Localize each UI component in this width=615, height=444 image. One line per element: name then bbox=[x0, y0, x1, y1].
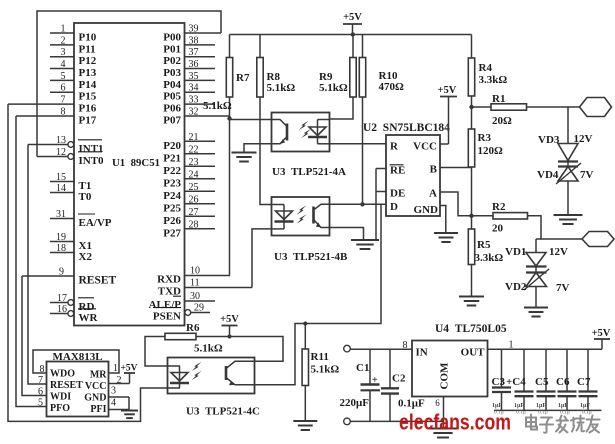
svg-text:24: 24 bbox=[189, 169, 199, 180]
svg-text:12: 12 bbox=[56, 147, 66, 158]
svg-text:A: A bbox=[429, 188, 437, 200]
svg-text:INT1: INT1 bbox=[79, 143, 104, 155]
U2 pin RE bbox=[376, 165, 405, 177]
svg-text:11: 11 bbox=[190, 278, 200, 289]
svg-text:5.1kΩ: 5.1kΩ bbox=[319, 82, 348, 94]
svg-text:P16: P16 bbox=[79, 103, 97, 115]
svg-text:R7: R7 bbox=[236, 72, 250, 84]
ground for MAX813L bbox=[121, 411, 138, 419]
resistor R3 bbox=[468, 107, 503, 167]
svg-text:C1: C1 bbox=[356, 362, 369, 374]
U1 pin 34 P05 bbox=[163, 83, 215, 103]
svg-text:P23: P23 bbox=[163, 177, 181, 189]
U1 pin 31 EA/VP bbox=[50, 209, 112, 229]
svg-text:7V: 7V bbox=[580, 169, 594, 181]
svg-text:VCC: VCC bbox=[413, 141, 437, 153]
U1 pin 10 RXD bbox=[157, 266, 230, 286]
svg-text:220μF: 220μF bbox=[340, 397, 370, 409]
MAX813L pin 4 PFI bbox=[90, 398, 129, 416]
svg-text:P10: P10 bbox=[79, 32, 97, 44]
svg-text:WDO: WDO bbox=[50, 369, 75, 380]
wire MAX GND PFI to ground bbox=[128, 397, 130, 411]
svg-text:WR: WR bbox=[79, 312, 99, 324]
svg-text:1μF: 1μF bbox=[536, 403, 546, 409]
svg-text:29: 29 bbox=[194, 303, 204, 314]
wire 4A LED cathode to U2 R bbox=[330, 143, 387, 145]
capacitor C1 220uF bbox=[340, 349, 381, 421]
svg-text:R1: R1 bbox=[492, 93, 505, 105]
svg-text:0.1μF: 0.1μF bbox=[398, 398, 425, 410]
wire TXD to 4B LED cathode bbox=[252, 229, 272, 288]
junction node A/R2/R5 bbox=[469, 214, 473, 218]
U1 pin 38 P01 bbox=[163, 35, 215, 55]
svg-text:+C4: +C4 bbox=[506, 376, 526, 388]
svg-text:19: 19 bbox=[56, 232, 66, 243]
svg-text:39: 39 bbox=[189, 24, 199, 35]
svg-text:5.1kΩ: 5.1kΩ bbox=[194, 343, 223, 355]
svg-text:28: 28 bbox=[189, 219, 199, 230]
svg-text:3: 3 bbox=[61, 47, 66, 58]
junction R11 top bbox=[303, 322, 307, 326]
junction +5V R6 bbox=[228, 335, 232, 339]
wire input top rail to U4 IN bbox=[349, 348, 351, 351]
svg-text:P02: P02 bbox=[163, 55, 181, 67]
svg-text:P25: P25 bbox=[163, 202, 181, 214]
svg-text:RE: RE bbox=[390, 165, 405, 177]
U1 pin 18 X2 bbox=[50, 243, 92, 263]
U1 pin 26 P25 bbox=[163, 194, 215, 214]
svg-text:P14: P14 bbox=[79, 79, 97, 91]
wire net INT1 to MAX813L RESET pin7 bbox=[28, 145, 47, 385]
svg-text:P20: P20 bbox=[163, 140, 181, 152]
svg-text:33: 33 bbox=[189, 95, 199, 106]
U1 pin 19 X1 bbox=[50, 232, 92, 252]
svg-text:VD2: VD2 bbox=[505, 281, 527, 293]
junction +5V rail bbox=[351, 32, 355, 36]
svg-text:PFI: PFI bbox=[90, 404, 106, 415]
svg-text:10: 10 bbox=[190, 266, 200, 277]
svg-text:15: 15 bbox=[56, 172, 66, 183]
svg-text:P07: P07 bbox=[163, 115, 181, 127]
ground under VD4 bbox=[554, 215, 583, 224]
svg-text:U4 TL750L05: U4 TL750L05 bbox=[435, 323, 507, 335]
svg-text:P21: P21 bbox=[163, 152, 181, 164]
U1 pin 7 P16 bbox=[8, 95, 97, 115]
svg-text:IN: IN bbox=[416, 347, 428, 359]
svg-text:P03: P03 bbox=[163, 67, 181, 79]
U1 pin 28 P27 bbox=[163, 219, 215, 239]
U1 pin 17 RD bbox=[50, 293, 94, 313]
junction P07 R7 node bbox=[227, 116, 231, 120]
wire U2 GND to ground bbox=[440, 206, 446, 234]
svg-text:13: 13 bbox=[56, 135, 66, 146]
U2 pin B bbox=[430, 164, 438, 176]
svg-text:GND: GND bbox=[84, 393, 106, 404]
wire net RESET to MAX813L WDI pin6 bbox=[22, 276, 47, 396]
U1 pin 13 INT1 bbox=[28, 135, 104, 155]
svg-text:37: 37 bbox=[189, 47, 199, 58]
U1 pin 16 WR bbox=[50, 304, 99, 324]
ground under 4A emitter bbox=[232, 153, 257, 162]
resistor R2 bbox=[472, 201, 528, 235]
svg-text:6: 6 bbox=[61, 83, 66, 94]
svg-text:MR: MR bbox=[90, 370, 107, 381]
svg-text:RESET: RESET bbox=[50, 380, 83, 391]
svg-text:31: 31 bbox=[56, 209, 66, 220]
svg-text:C6: C6 bbox=[556, 376, 570, 388]
MAX813L pin 1 MR bbox=[90, 363, 118, 381]
U1 pin 36 P03 bbox=[163, 59, 215, 79]
wire R6 right to 4C collector bbox=[196, 337, 283, 362]
zener diode VD2 bbox=[505, 267, 570, 295]
svg-text:14: 14 bbox=[56, 183, 66, 194]
ground under R5 bbox=[459, 297, 484, 306]
wire R6 left to 4C LED anode bbox=[145, 337, 180, 367]
svg-text:7: 7 bbox=[38, 375, 43, 386]
U1 pin 2 P11 bbox=[50, 35, 96, 55]
resistor R4 bbox=[468, 58, 507, 96]
svg-text:COM: COM bbox=[439, 362, 451, 390]
svg-text:17: 17 bbox=[57, 293, 67, 304]
svg-text:5: 5 bbox=[61, 71, 66, 82]
svg-text:R11: R11 bbox=[311, 351, 329, 363]
svg-text:16: 16 bbox=[57, 304, 67, 315]
ground for U2 GND bbox=[434, 233, 458, 242]
power +5V for MAX813L VCC bbox=[120, 364, 137, 384]
U1 pin 5 P14 bbox=[50, 71, 97, 91]
svg-text:R: R bbox=[390, 141, 399, 153]
U1 pin 30 ALE/P bbox=[149, 291, 215, 311]
svg-text:120Ω: 120Ω bbox=[478, 145, 504, 157]
svg-text:R4: R4 bbox=[479, 62, 493, 74]
svg-text:P00: P00 bbox=[163, 32, 181, 44]
svg-text:7: 7 bbox=[61, 95, 66, 106]
svg-text:3.3kΩ: 3.3kΩ bbox=[475, 252, 504, 264]
svg-text:3.3kΩ: 3.3kΩ bbox=[479, 74, 508, 86]
svg-text:R3: R3 bbox=[478, 132, 492, 144]
svg-text:B: B bbox=[430, 164, 438, 176]
svg-text:5.1kΩ: 5.1kΩ bbox=[203, 100, 232, 112]
svg-text:P11: P11 bbox=[79, 43, 96, 55]
svg-text:12V: 12V bbox=[574, 133, 593, 145]
svg-text:U2 SN75LBC184: U2 SN75LBC184 bbox=[363, 122, 450, 134]
U1 pin 1 P10 bbox=[50, 24, 97, 44]
svg-text:6: 6 bbox=[38, 387, 43, 398]
svg-text:PFO: PFO bbox=[50, 403, 70, 414]
svg-text:12V: 12V bbox=[549, 246, 568, 258]
MAX813L pin 5 PFO bbox=[38, 398, 70, 415]
U1 pin 15 T1 bbox=[50, 172, 91, 192]
U4 pin 8 IN bbox=[403, 340, 428, 359]
capacitor value labels bbox=[492, 403, 592, 416]
U1 pin 9 RESET bbox=[22, 267, 117, 287]
svg-text:6: 6 bbox=[435, 398, 440, 408]
svg-text:34: 34 bbox=[189, 83, 199, 94]
svg-text:PSEN: PSEN bbox=[153, 311, 181, 323]
ground under R11 bbox=[293, 421, 317, 430]
svg-text:VD3: VD3 bbox=[538, 134, 560, 146]
svg-text:38: 38 bbox=[189, 35, 199, 46]
svg-text:P17: P17 bbox=[79, 115, 97, 127]
svg-text:GND: GND bbox=[414, 204, 439, 216]
wire U2 A to R2 node bbox=[440, 192, 472, 216]
U2 pin D bbox=[390, 201, 398, 213]
svg-text:470Ω: 470Ω bbox=[379, 81, 405, 93]
svg-text:VD4: VD4 bbox=[537, 169, 559, 181]
U1 pin 24 P23 bbox=[163, 169, 215, 189]
optocoupler U3 TLP521-4B bbox=[272, 197, 330, 236]
svg-text:4: 4 bbox=[61, 59, 66, 70]
svg-text:P01: P01 bbox=[163, 43, 181, 55]
svg-text:+5V: +5V bbox=[220, 314, 239, 325]
wire R2 to connector 2 bbox=[528, 216, 583, 239]
svg-text:1: 1 bbox=[61, 24, 66, 35]
ground under U4 COM bbox=[428, 429, 459, 438]
svg-text:3: 3 bbox=[111, 386, 116, 397]
svg-text:20: 20 bbox=[492, 223, 504, 235]
svg-text:R2: R2 bbox=[492, 201, 506, 213]
svg-text:RXD: RXD bbox=[157, 274, 181, 286]
svg-text:9: 9 bbox=[59, 267, 64, 278]
connector bus terminal 2 bbox=[582, 232, 614, 247]
U1 pin 37 P02 bbox=[163, 47, 215, 67]
IC MAX813L body bbox=[47, 362, 109, 417]
capacitor C3 bbox=[492, 349, 512, 410]
IC U1 89C51 body bbox=[74, 23, 185, 326]
U1 pin 3 P12 bbox=[50, 47, 97, 67]
svg-text:32: 32 bbox=[189, 107, 199, 118]
svg-text:22: 22 bbox=[189, 144, 199, 155]
connector bus terminal 1 bbox=[580, 98, 612, 117]
svg-text:23: 23 bbox=[189, 157, 199, 168]
svg-text:U1 89C51: U1 89C51 bbox=[112, 157, 160, 169]
U1 pin 6 P15 bbox=[50, 83, 97, 103]
wire R5 to ground bbox=[471, 265, 473, 297]
power +5V near R6 bbox=[220, 314, 239, 326]
svg-text:RESET: RESET bbox=[79, 275, 117, 287]
U1 pin 12 INT0 bbox=[37, 147, 104, 167]
wire input bottom rail bbox=[350, 420, 443, 422]
junction R10 D line bbox=[360, 202, 364, 206]
U1 pin 22 P21 bbox=[163, 144, 215, 164]
svg-text:1μF: 1μF bbox=[492, 403, 502, 409]
U1 pin 8 P17 bbox=[16, 107, 97, 127]
U1 pin 23 P22 bbox=[163, 157, 215, 177]
wire B line down to VD3 bbox=[567, 107, 569, 144]
capacitor C2 0.1uF bbox=[381, 349, 425, 421]
svg-text:8: 8 bbox=[61, 107, 66, 118]
junction node R1/R4/R3 bbox=[469, 105, 473, 109]
svg-text:7V: 7V bbox=[556, 282, 570, 294]
svg-text:OUT: OUT bbox=[461, 347, 486, 359]
svg-text:5.1kΩ: 5.1kΩ bbox=[267, 82, 296, 94]
svg-text:21: 21 bbox=[189, 132, 199, 143]
resistor R8 bbox=[257, 35, 296, 98]
watermark chinese characters bbox=[526, 415, 600, 433]
svg-text:+5V: +5V bbox=[592, 328, 611, 339]
MAX813L pin 3 GND bbox=[84, 386, 129, 404]
wire 4A emitter to ground bbox=[244, 144, 272, 153]
U1 pin 21 P20 bbox=[163, 132, 215, 152]
U1 pin 29 PSEN bbox=[153, 303, 210, 323]
wire net P16 to bottom rail to U3C LED cathode bbox=[8, 104, 180, 421]
svg-text:5: 5 bbox=[38, 398, 43, 409]
svg-text:WDI: WDI bbox=[50, 392, 71, 403]
resistor R9 bbox=[319, 35, 356, 98]
wire R4 bottom to node B-R1 bbox=[471, 96, 473, 107]
svg-text:P06: P06 bbox=[163, 103, 181, 115]
svg-text:DE: DE bbox=[390, 188, 405, 200]
svg-text:30: 30 bbox=[190, 291, 200, 302]
svg-text:C3: C3 bbox=[492, 376, 506, 388]
U2 pin DE bbox=[376, 188, 405, 200]
svg-text:5.1kΩ: 5.1kΩ bbox=[311, 364, 340, 376]
svg-text:EA/VP: EA/VP bbox=[79, 217, 112, 229]
U4 pin 1 OUT bbox=[461, 340, 514, 359]
wire +5V top rail bbox=[230, 34, 472, 36]
wire D node down to 4C emitter line bbox=[255, 204, 382, 384]
wire U2 B to R3 bbox=[440, 167, 472, 169]
IC U4 TL750L05 body bbox=[412, 341, 488, 397]
U2 pin VCC bbox=[413, 141, 448, 153]
resistor R11 bbox=[302, 324, 339, 386]
resistor R1 bbox=[472, 93, 527, 127]
svg-text:VD1: VD1 bbox=[505, 246, 526, 258]
svg-text:elecfans.com: elecfans.com bbox=[399, 410, 511, 435]
U2 pin R bbox=[390, 141, 399, 153]
svg-text:VCC: VCC bbox=[85, 381, 107, 392]
wire R9 to 4A LED anode bbox=[330, 97, 354, 119]
svg-text:D: D bbox=[390, 201, 398, 213]
wire R8 to 4B LED anode bbox=[260, 97, 272, 205]
ground under 4B emitter and RE/DE bbox=[351, 240, 379, 249]
svg-text:+5V: +5V bbox=[438, 85, 457, 96]
power +5V top bbox=[343, 12, 362, 24]
svg-text:8: 8 bbox=[40, 364, 45, 375]
svg-text:27: 27 bbox=[189, 207, 199, 218]
svg-text:26: 26 bbox=[189, 194, 199, 205]
U1 pin 35 P04 bbox=[163, 71, 215, 91]
svg-text:2: 2 bbox=[61, 35, 66, 46]
resistor R7 bbox=[203, 35, 250, 118]
svg-text:P24: P24 bbox=[163, 190, 181, 202]
resistor R10 bbox=[359, 35, 404, 98]
MAX813L pin 6 WDI bbox=[38, 387, 71, 403]
U4 pin 6 to ground bbox=[435, 397, 443, 429]
wire net P17 to MAX813L PFO bbox=[16, 116, 47, 407]
wire R1 to connector bbox=[527, 106, 580, 108]
svg-text:18: 18 bbox=[56, 243, 66, 254]
svg-text:+5V: +5V bbox=[343, 12, 362, 23]
svg-text:1μF: 1μF bbox=[514, 403, 524, 409]
resistor R6 bbox=[165, 322, 223, 355]
svg-text:P27: P27 bbox=[163, 227, 181, 239]
capacitor C7 bbox=[577, 349, 598, 410]
svg-text:U3 TLP521-4B: U3 TLP521-4B bbox=[274, 251, 348, 263]
svg-text:+: + bbox=[372, 375, 378, 386]
MAX813L pin 8 WDO bbox=[40, 364, 76, 380]
optocoupler U3 TLP521-4A bbox=[272, 113, 330, 152]
svg-text:4: 4 bbox=[111, 398, 116, 409]
svg-text:P12: P12 bbox=[79, 55, 97, 67]
svg-text:C7: C7 bbox=[577, 376, 591, 388]
svg-text:X2: X2 bbox=[79, 251, 93, 263]
svg-text:P22: P22 bbox=[163, 165, 181, 177]
svg-text:P26: P26 bbox=[163, 215, 181, 227]
svg-text:25: 25 bbox=[189, 182, 199, 193]
capacitor C4 bbox=[506, 349, 534, 410]
wire VD4 to ground bbox=[567, 181, 569, 215]
U1 pin 11 TXD bbox=[158, 278, 252, 298]
MAX813L pin 7 RESET bbox=[38, 375, 83, 391]
capacitor C5 bbox=[535, 349, 556, 410]
svg-text:P04: P04 bbox=[163, 79, 181, 91]
wire U4 OUT rail bbox=[488, 348, 603, 350]
wire R11 to ground bbox=[304, 386, 306, 422]
U1 pin 33 P06 bbox=[163, 95, 215, 115]
svg-text:1: 1 bbox=[113, 363, 118, 374]
terminal input - bbox=[344, 418, 351, 425]
U1 pin 4 P13 bbox=[50, 59, 97, 79]
U1 pin 27 P26 bbox=[163, 207, 215, 227]
svg-text:36: 36 bbox=[189, 59, 199, 70]
wire net INT0 to top rail to P00 bbox=[37, 11, 221, 157]
wire 4B emitter to ground bbox=[330, 228, 364, 241]
svg-text:P15: P15 bbox=[79, 91, 97, 103]
U1 pin 39 P00 bbox=[163, 24, 221, 44]
svg-text:C5: C5 bbox=[535, 376, 549, 388]
wire 4B collector / U2 D line bbox=[330, 203, 387, 205]
zener diode VD4 bbox=[537, 162, 594, 185]
svg-text:P05: P05 bbox=[163, 91, 181, 103]
wire RE DE tie to ground bbox=[375, 169, 377, 241]
terminal input + bbox=[344, 345, 351, 352]
power +5V at U4 OUT bbox=[592, 328, 611, 339]
resistor R5 bbox=[468, 216, 503, 265]
svg-text:8: 8 bbox=[403, 340, 408, 351]
svg-text:U3 TLP521-4C: U3 TLP521-4C bbox=[186, 406, 260, 418]
wire capacitor bottom rail bbox=[494, 409, 602, 411]
svg-text:0.1μ: 0.1μ bbox=[582, 410, 592, 416]
U2 pin A bbox=[429, 188, 437, 200]
capacitor C6 bbox=[556, 349, 577, 410]
svg-text:T0: T0 bbox=[79, 191, 92, 203]
wire +5V rail down to R4 bbox=[471, 35, 473, 59]
svg-text:R5: R5 bbox=[477, 239, 491, 251]
svg-text:35: 35 bbox=[189, 71, 199, 82]
svg-text:0.1μ: 0.1μ bbox=[516, 410, 526, 416]
MAX813L pin 2 VCC bbox=[85, 375, 130, 392]
svg-text:C2: C2 bbox=[392, 373, 406, 385]
wire R10 pull-up to D line bbox=[362, 97, 364, 204]
U1 pin 32 P07 bbox=[163, 107, 229, 127]
U1 pin 25 P24 bbox=[163, 182, 215, 202]
wire R3 bottom to A node bbox=[471, 167, 473, 216]
svg-text:U3 TLP521-4A: U3 TLP521-4A bbox=[272, 166, 346, 178]
svg-text:2: 2 bbox=[117, 375, 122, 386]
U1 pin 14 T0 bbox=[50, 183, 92, 203]
zener diode VD1 bbox=[505, 239, 568, 267]
svg-text:R6: R6 bbox=[186, 322, 200, 334]
svg-text:ALE/P: ALE/P bbox=[149, 299, 182, 311]
svg-text:1μF: 1μF bbox=[580, 403, 590, 409]
svg-text:20Ω: 20Ω bbox=[492, 115, 512, 127]
svg-text:+5V: +5V bbox=[120, 364, 137, 374]
svg-text:1μF: 1μF bbox=[558, 403, 568, 409]
svg-text:INT0: INT0 bbox=[79, 155, 105, 167]
svg-text:0.1μ: 0.1μ bbox=[538, 410, 548, 416]
power +5V for U2 VCC bbox=[438, 85, 457, 97]
